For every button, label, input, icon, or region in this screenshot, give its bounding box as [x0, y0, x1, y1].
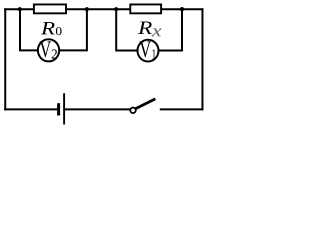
wire: outer loop left side — [4, 8, 6, 110]
node: junction dot left of R0 — [18, 7, 22, 11]
wire: bottom left segment to battery — [4, 108, 57, 110]
wire: voltmeter V1 right branch — [159, 9, 182, 50]
wire: voltmeter V2 left branch — [20, 9, 38, 50]
switch arm — [135, 99, 155, 109]
wire: switch to bottom right corner — [160, 108, 204, 110]
wire: outer loop right side — [201, 8, 203, 110]
wire: top left segment to resistor R0 — [4, 8, 34, 10]
label Rx — [138, 22, 152, 35]
node: junction dot right of R0 — [85, 7, 89, 11]
battery: short thick plate (negative) — [57, 103, 60, 115]
battery: long thin plate (positive) — [63, 93, 65, 124]
wire: top right segment — [161, 8, 203, 10]
node: junction dot left of Rx — [114, 7, 118, 11]
resistor R0 box — [34, 4, 66, 13]
voltmeter V1 — [138, 40, 159, 62]
wire: battery to switch — [65, 108, 131, 110]
voltmeter V2 — [38, 39, 59, 61]
resistor Rx box — [130, 4, 161, 13]
wire: top middle segment between resistors — [66, 8, 131, 10]
node: junction dot right of Rx — [180, 7, 184, 11]
label R0 — [41, 22, 55, 34]
switch pivot circle — [130, 108, 136, 114]
wire: voltmeter V2 right branch — [60, 9, 87, 50]
wire: voltmeter V1 left branch — [116, 9, 138, 50]
